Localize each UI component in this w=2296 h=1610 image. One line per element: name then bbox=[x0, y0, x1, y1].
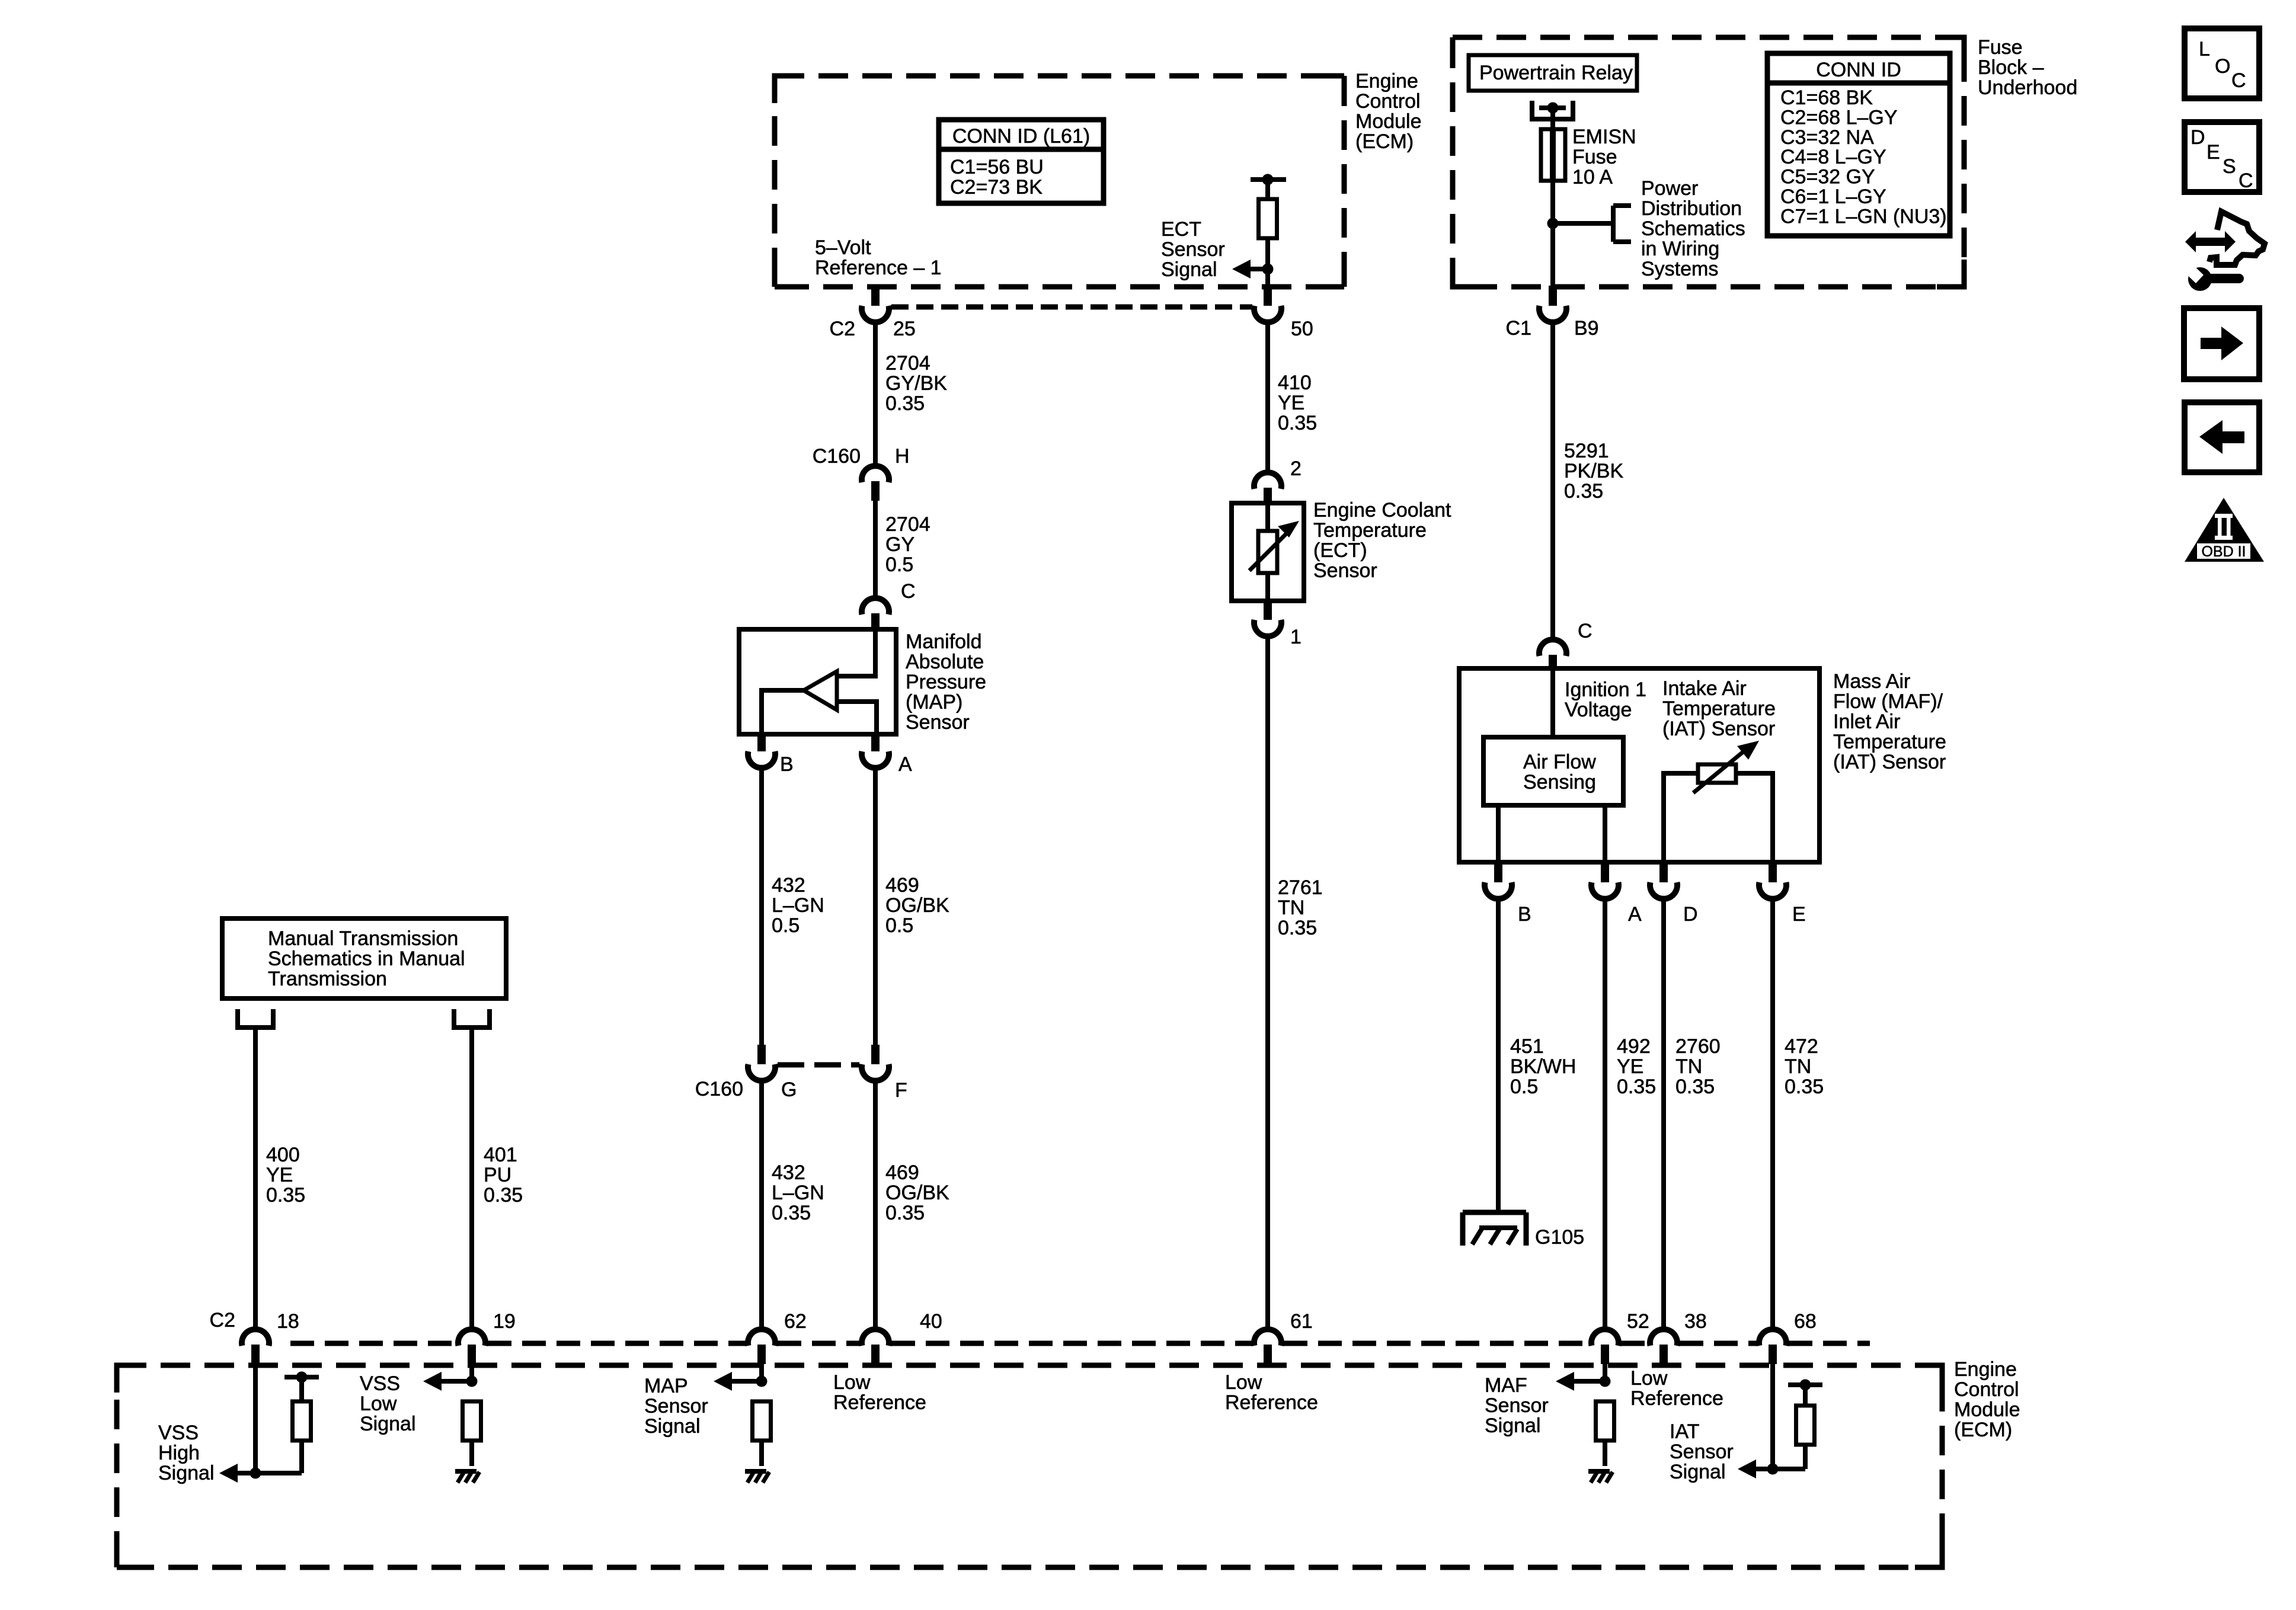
svg-text:YE: YE bbox=[266, 1164, 293, 1186]
svg-text:Block –: Block – bbox=[1978, 56, 2044, 79]
wire: air flow sensing signal output bbox=[1603, 805, 1607, 862]
icon: vehicle outline bbox=[2209, 212, 2265, 265]
label: Power Distribution Schematics in Wiring Systems bbox=[1641, 177, 1745, 280]
wire: pin 68 to junction bbox=[1770, 1364, 1775, 1469]
wire: IAT sensor signal arrow bbox=[1738, 1459, 1773, 1478]
label: Fuse Block - Underhood bbox=[1978, 36, 2077, 99]
connector: C160 pin F (pin and cup) bbox=[862, 1045, 889, 1081]
svg-text:High: High bbox=[158, 1442, 200, 1464]
label: Intake Air Temperature (IAT) Sensor bbox=[1662, 677, 1776, 740]
connector: ECM terminal 52 (dome and pin) bbox=[1591, 1329, 1619, 1364]
icon text: DESC letters bbox=[2191, 126, 2253, 192]
svg-text:TN: TN bbox=[1675, 1055, 1702, 1078]
svg-text:OG/BK: OG/BK bbox=[885, 1182, 949, 1204]
value label: 2761 TN 0.35 bbox=[1278, 876, 1323, 939]
icon: OBD II triangle bbox=[2185, 498, 2264, 562]
net label: 5-Volt Reference - 1 bbox=[815, 236, 942, 279]
svg-text:G105: G105 bbox=[1535, 1226, 1584, 1249]
label: pin G bbox=[781, 1078, 797, 1101]
connector: MAP terminal B cup bbox=[748, 751, 775, 768]
svg-text:2760: 2760 bbox=[1675, 1035, 1721, 1058]
svg-text:Signal: Signal bbox=[158, 1462, 215, 1484]
svg-text:TN: TN bbox=[1785, 1055, 1811, 1078]
svg-text:Sensor: Sensor bbox=[1313, 559, 1377, 582]
svg-text:BK/WH: BK/WH bbox=[1510, 1055, 1576, 1078]
svg-text:40: 40 bbox=[920, 1310, 942, 1333]
node: power distribution junction bbox=[1547, 218, 1559, 229]
label: VSS High Signal bbox=[158, 1422, 215, 1484]
label: pin D (MAF) bbox=[1683, 903, 1698, 926]
label: pin 1 (ECT) bbox=[1290, 626, 1302, 648]
node: IAT supply T-bar bbox=[1788, 1379, 1822, 1391]
arrow: ECT variable marker bbox=[1249, 521, 1299, 571]
label: connector C2 bbox=[830, 318, 855, 340]
svg-text:YE: YE bbox=[1617, 1055, 1643, 1078]
label: MAP Sensor Signal bbox=[644, 1375, 708, 1438]
svg-text:Mass Air: Mass Air bbox=[1833, 670, 1910, 693]
wire: junction to pull-up (pin 68) bbox=[1773, 1445, 1805, 1469]
svg-text:O: O bbox=[2215, 55, 2230, 78]
svg-text:Signal: Signal bbox=[1485, 1414, 1541, 1437]
wire: 472 TN 0.35 bbox=[1770, 897, 1775, 1328]
svg-text:in Wiring: in Wiring bbox=[1641, 238, 1719, 260]
svg-text:Voltage: Voltage bbox=[1565, 699, 1632, 721]
label: pin B (MAF) bbox=[1518, 903, 1531, 926]
pin stub: fuse block C1 pin B9 bbox=[1549, 286, 1557, 306]
svg-text:E: E bbox=[2207, 141, 2220, 164]
wire: pin 18 to junction bbox=[253, 1364, 258, 1473]
node: ECT signal junction bbox=[1262, 264, 1274, 275]
ground: MAF signal internal bbox=[1588, 1471, 1613, 1483]
wire: ECT internal top bbox=[1265, 505, 1270, 531]
resistor: VSS high pull-up bbox=[293, 1401, 311, 1441]
label: pin 50 bbox=[1291, 318, 1313, 340]
connector face line: ECM C2 (dashed) bbox=[891, 305, 1252, 310]
svg-text:469: 469 bbox=[885, 874, 919, 897]
svg-text:Low: Low bbox=[1225, 1371, 1262, 1394]
wire: supply to resistor bbox=[1265, 180, 1270, 199]
svg-text:0.5: 0.5 bbox=[772, 914, 800, 937]
wire: junction to fuse block edge bbox=[1550, 223, 1555, 287]
svg-text:0.35: 0.35 bbox=[1617, 1076, 1656, 1098]
connector: ECM terminal 18 (dome and pin) bbox=[242, 1329, 269, 1364]
icon text: LOC letters bbox=[2199, 38, 2246, 92]
svg-text:Underhood: Underhood bbox=[1978, 76, 2077, 99]
pin stub: MAF pin D bbox=[1659, 862, 1668, 882]
wire: ignition feed into air flow sensing bbox=[1550, 670, 1555, 738]
svg-text:Low: Low bbox=[360, 1393, 397, 1415]
svg-text:401: 401 bbox=[484, 1144, 517, 1166]
svg-text:C160: C160 bbox=[695, 1078, 743, 1100]
wire: MAF sensor signal arrow bbox=[1556, 1372, 1605, 1391]
connector: ECT pin 2 (dome and pin) bbox=[1254, 472, 1281, 504]
svg-text:EMISN: EMISN bbox=[1572, 126, 1636, 148]
svg-text:Low: Low bbox=[833, 1371, 871, 1394]
svg-text:Powertrain Relay: Powertrain Relay bbox=[1479, 62, 1633, 84]
svg-text:E: E bbox=[1792, 903, 1806, 926]
component box: ECT sensor bbox=[1232, 503, 1304, 601]
connector: ECT terminal 1 cup bbox=[1254, 620, 1281, 636]
value label: 2704 GY 0.5 bbox=[885, 513, 930, 576]
wire: MAP internal low side bbox=[762, 690, 805, 734]
label: Powertrain Relay bbox=[1479, 62, 1633, 84]
svg-text:C2: C2 bbox=[210, 1309, 235, 1331]
relay contact: powertrain relay output bbox=[1532, 101, 1573, 119]
label: Manifold Absolute Pressure (MAP) Sensor bbox=[906, 630, 986, 734]
label: pin A (MAF) bbox=[1628, 903, 1642, 926]
label: Manual Transmission Schematics in Manual Transmission bbox=[268, 927, 465, 990]
svg-text:C1: C1 bbox=[1506, 317, 1531, 340]
svg-text:L–GN: L–GN bbox=[772, 1182, 824, 1204]
icon: right arrow bbox=[2201, 327, 2243, 360]
connector: MAF terminal E cup bbox=[1759, 882, 1786, 899]
icon box: LOC bbox=[2185, 28, 2259, 98]
svg-text:TN: TN bbox=[1278, 897, 1304, 919]
connector: ECM terminal 40 (dome and pin) bbox=[862, 1329, 889, 1364]
wire: 2761 TN 0.35 bbox=[1265, 635, 1270, 1328]
svg-text:IAT: IAT bbox=[1670, 1420, 1699, 1443]
svg-text:0.35: 0.35 bbox=[1675, 1076, 1715, 1098]
svg-text:YE: YE bbox=[1278, 392, 1304, 414]
ground: VSS low internal bbox=[455, 1471, 479, 1483]
wire: 432 L-GN 0.5 bbox=[759, 766, 764, 1045]
svg-text:Transmission: Transmission bbox=[268, 968, 387, 990]
resistor: ECT thermistor bbox=[1258, 531, 1277, 573]
label: pin A (MAP) bbox=[898, 753, 912, 776]
value label: 2760 TN 0.35 bbox=[1675, 1035, 1721, 1098]
connector: C160 pin G (pin and cup) bbox=[748, 1045, 775, 1081]
svg-text:Engine Coolant: Engine Coolant bbox=[1313, 499, 1451, 521]
svg-text:Sensor: Sensor bbox=[1670, 1441, 1734, 1463]
off-page bracket: power distribution bbox=[1613, 206, 1631, 242]
label: pin B (MAP) bbox=[780, 753, 794, 776]
label: connector C160 (G row) bbox=[695, 1078, 743, 1100]
connector: MAF pin C (dome and pin) bbox=[1539, 639, 1566, 670]
wire: pin 19 to junction bbox=[469, 1364, 474, 1381]
label: pin C (MAP) bbox=[901, 580, 916, 603]
svg-text:19: 19 bbox=[493, 1310, 516, 1333]
net label: Low Reference (pin 40) bbox=[833, 1371, 926, 1414]
svg-text:2704: 2704 bbox=[885, 352, 930, 375]
svg-text:1: 1 bbox=[1290, 626, 1302, 648]
svg-text:ECT: ECT bbox=[1161, 218, 1201, 241]
svg-text:0.35: 0.35 bbox=[1785, 1076, 1824, 1098]
svg-text:Temperature: Temperature bbox=[1833, 731, 1946, 753]
svg-text:Low: Low bbox=[1630, 1367, 1668, 1390]
label: Engine Control Module (ECM) top-right bbox=[1355, 70, 1422, 153]
svg-text:VSS: VSS bbox=[360, 1372, 400, 1395]
svg-text:(ECM): (ECM) bbox=[1954, 1419, 2012, 1441]
svg-text:0.35: 0.35 bbox=[266, 1184, 305, 1206]
wire: 410 YE 0.35 bbox=[1265, 321, 1270, 471]
svg-text:432: 432 bbox=[772, 1161, 805, 1184]
label: pin 68 bbox=[1794, 1310, 1817, 1333]
connector face line: C160 G-F (dashed) bbox=[778, 1062, 859, 1068]
svg-text:Systems: Systems bbox=[1641, 258, 1718, 280]
svg-text:0.5: 0.5 bbox=[885, 553, 913, 576]
svg-text:GY/BK: GY/BK bbox=[885, 372, 947, 395]
wire: MAP sensor signal arrow bbox=[714, 1372, 762, 1391]
wire: pull-up to supply bar bbox=[299, 1377, 304, 1401]
svg-text:Manual Transmission: Manual Transmission bbox=[268, 927, 458, 950]
svg-text:Power: Power bbox=[1641, 177, 1698, 200]
label: Mass Air Flow (MAF)/Inlet Air Temperature (IAT) Sensor bbox=[1833, 670, 1946, 773]
svg-text:C2=68 L–GY: C2=68 L–GY bbox=[1780, 106, 1898, 129]
wire: air flow sensing low output bbox=[1496, 805, 1501, 862]
svg-text:Sensing: Sensing bbox=[1523, 771, 1596, 793]
svg-text:410: 410 bbox=[1278, 372, 1312, 394]
svg-text:Absolute: Absolute bbox=[906, 651, 984, 673]
svg-text:2: 2 bbox=[1290, 457, 1302, 480]
net label: Ignition 1 Voltage bbox=[1565, 678, 1646, 721]
svg-text:D: D bbox=[2191, 126, 2205, 149]
fuse: EMISN 10 A bbox=[1541, 129, 1565, 181]
label: pin 52 bbox=[1627, 1310, 1649, 1333]
label: VSS Low Signal bbox=[360, 1372, 416, 1435]
connector: ECM terminal 62 (dome and pin) bbox=[748, 1329, 775, 1364]
label: CONN ID (L61) header bbox=[952, 125, 1090, 148]
wire: resistor to ground (pin 19) bbox=[469, 1441, 474, 1466]
svg-text:25: 25 bbox=[893, 318, 916, 340]
wire: 451 BK/WH 0.5 bbox=[1496, 897, 1501, 1212]
svg-text:(ECM): (ECM) bbox=[1355, 130, 1414, 153]
svg-text:0.35: 0.35 bbox=[484, 1184, 523, 1206]
svg-text:492: 492 bbox=[1617, 1035, 1651, 1058]
svg-text:C3=32 NA: C3=32 NA bbox=[1780, 126, 1874, 149]
connector: MAF terminal A cup bbox=[1591, 882, 1619, 899]
svg-text:469: 469 bbox=[885, 1161, 919, 1184]
wire: 400 YE 0.35 bbox=[253, 1028, 258, 1328]
connector: ECM terminal 68 (dome and pin) bbox=[1759, 1329, 1786, 1364]
net label: Low Reference (pin 38) bbox=[1630, 1367, 1723, 1410]
icon box: DESC bbox=[2185, 122, 2259, 192]
svg-text:C: C bbox=[1578, 620, 1593, 642]
icon: left arrow bbox=[2199, 420, 2244, 454]
svg-text:Fuse: Fuse bbox=[1572, 146, 1617, 168]
svg-text:Reference: Reference bbox=[1225, 1391, 1318, 1414]
svg-text:CONN ID (L61): CONN ID (L61) bbox=[952, 125, 1090, 148]
svg-text:C: C bbox=[2231, 69, 2246, 92]
svg-text:L–GN: L–GN bbox=[772, 894, 824, 917]
connector: MAF terminal D cup bbox=[1650, 882, 1677, 899]
svg-text:G: G bbox=[781, 1078, 797, 1101]
wire: ECT sensor signal arrow bbox=[1232, 260, 1268, 279]
wire: 2760 TN 0.35 bbox=[1661, 897, 1666, 1328]
pin stub: MAF pin E bbox=[1769, 862, 1777, 882]
svg-text:C5=32 GY: C5=32 GY bbox=[1780, 166, 1875, 188]
svg-text:Control: Control bbox=[1954, 1378, 2019, 1401]
svg-text:2704: 2704 bbox=[885, 513, 930, 536]
op-amp: MAP sensing element triangle bbox=[804, 671, 837, 710]
svg-text:Signal: Signal bbox=[1670, 1461, 1726, 1483]
icon box: arrow right bbox=[2184, 308, 2259, 379]
svg-text:C: C bbox=[901, 580, 916, 603]
wire: 5291 PK/BK 0.35 bbox=[1550, 321, 1555, 638]
svg-text:Temperature: Temperature bbox=[1662, 697, 1776, 720]
svg-text:Schematics in Manual: Schematics in Manual bbox=[268, 948, 465, 970]
connector: ECM terminal 19 (dome and pin) bbox=[458, 1329, 485, 1364]
label: pin 18 bbox=[277, 1310, 299, 1333]
svg-text:0.35: 0.35 bbox=[1278, 917, 1317, 939]
svg-text:D: D bbox=[1683, 903, 1698, 926]
value label: 400 YE 0.35 bbox=[266, 1144, 305, 1206]
svg-text:0.35: 0.35 bbox=[1278, 412, 1317, 434]
ground: MAP signal internal bbox=[745, 1471, 769, 1483]
svg-text:Module: Module bbox=[1355, 110, 1422, 133]
connector: C2 terminal 25 cup bbox=[862, 306, 889, 322]
node: VSS high junction bbox=[250, 1468, 261, 1479]
wire: fuse to junction bbox=[1550, 181, 1555, 223]
svg-text:Intake Air: Intake Air bbox=[1662, 677, 1747, 700]
lead bracket: VSS high output bbox=[238, 1009, 273, 1028]
svg-text:10 A: 10 A bbox=[1572, 166, 1613, 188]
label: connector C2 (bottom) bbox=[210, 1309, 235, 1331]
label: pin C (MAF) bbox=[1578, 620, 1593, 642]
connector: C160 pin H (dome and pin) bbox=[862, 466, 889, 501]
value label: 451 BK/WH 0.5 bbox=[1510, 1035, 1576, 1098]
svg-text:451: 451 bbox=[1510, 1035, 1544, 1058]
svg-text:Inlet Air: Inlet Air bbox=[1833, 710, 1900, 733]
svg-text:0.35: 0.35 bbox=[1564, 480, 1603, 502]
wire: pin 62 to junction bbox=[759, 1364, 764, 1381]
value label: 401 PU 0.35 bbox=[484, 1144, 523, 1206]
wire: 469 OG/BK 0.5 bbox=[873, 766, 878, 1045]
module box: Engine Control Module (ECM) bottom (dashed) bbox=[117, 1365, 1942, 1567]
svg-text:C2=73 BK: C2=73 BK bbox=[950, 176, 1043, 199]
value label: 469 OG/BK 0.35 bbox=[885, 1161, 949, 1224]
svg-text:Signal: Signal bbox=[644, 1415, 701, 1438]
icon: wrench bbox=[2182, 261, 2239, 291]
wire: resistor to ground (pin 52) bbox=[1603, 1441, 1607, 1466]
svg-text:Module: Module bbox=[1954, 1398, 2020, 1421]
label: connector C1 bbox=[1506, 317, 1531, 340]
svg-text:F: F bbox=[895, 1079, 907, 1102]
svg-text:472: 472 bbox=[1785, 1035, 1818, 1058]
svg-text:5291: 5291 bbox=[1564, 440, 1609, 462]
svg-text:Reference: Reference bbox=[833, 1391, 926, 1414]
wire: resistor to junction bbox=[1265, 238, 1270, 269]
svg-text:MAP: MAP bbox=[644, 1375, 688, 1397]
wire: 2704 GY/BK 0.35 bbox=[873, 321, 878, 465]
node: IAT signal junction bbox=[1767, 1464, 1779, 1475]
wire: 401 PU 0.35 bbox=[469, 1028, 474, 1328]
svg-text:C1=68 BK: C1=68 BK bbox=[1780, 87, 1873, 109]
svg-text:PU: PU bbox=[484, 1164, 511, 1186]
svg-text:Temperature: Temperature bbox=[1313, 519, 1427, 542]
svg-text:Air Flow: Air Flow bbox=[1523, 751, 1596, 773]
svg-text:H: H bbox=[895, 445, 910, 468]
wire: ECT internal bottom bbox=[1265, 573, 1270, 601]
label: CONN ID header bbox=[1816, 59, 1901, 81]
label: CONN ID rows bbox=[1780, 87, 1947, 228]
svg-text:C1=56 BU: C1=56 BU bbox=[950, 156, 1044, 178]
wire: IAT element right lead bbox=[1736, 773, 1773, 862]
label: pin B9 bbox=[1574, 317, 1599, 340]
svg-text:C4=8 L–GY: C4=8 L–GY bbox=[1780, 146, 1886, 168]
connector: MAP pin C (dome and pin) bbox=[862, 598, 889, 630]
svg-text:(ECT): (ECT) bbox=[1313, 539, 1367, 562]
svg-text:Sensor: Sensor bbox=[1485, 1394, 1549, 1417]
svg-text:0.35: 0.35 bbox=[885, 392, 925, 415]
value label: 2704 GY/BK 0.35 bbox=[885, 352, 947, 415]
pin stub: ECT pin 1 bbox=[1264, 601, 1272, 620]
component box: Powertrain Relay bbox=[1469, 55, 1637, 91]
wire: IAT element left lead bbox=[1664, 773, 1698, 862]
svg-text:C: C bbox=[2239, 169, 2253, 192]
resistor: IAT pull-up bbox=[1796, 1406, 1815, 1445]
wire: MAP internal output bottom bbox=[836, 702, 877, 734]
module box: Engine Control Module (ECM) top (dashed) bbox=[775, 76, 1344, 287]
label: EMISN Fuse 10 A bbox=[1572, 126, 1636, 188]
wire: junction to ECM edge bbox=[1265, 269, 1270, 287]
resistor: IAT thermistor bbox=[1698, 764, 1736, 783]
svg-text:0.35: 0.35 bbox=[772, 1202, 811, 1224]
svg-text:Control: Control bbox=[1355, 90, 1421, 113]
svg-text:Sensor: Sensor bbox=[644, 1395, 708, 1417]
label: CONN ID (L61) rows bbox=[950, 156, 1044, 199]
label: pin 61 bbox=[1290, 1310, 1313, 1333]
value label: 5291 PK/BK 0.35 bbox=[1564, 440, 1623, 502]
module box: Fuse Block - Underhood (dashed) bbox=[1453, 37, 1964, 287]
connector: ECM terminal 61 (dome and pin) bbox=[1254, 1329, 1281, 1364]
resistor: VSS low load bbox=[463, 1401, 481, 1441]
wire: junction to pull-up bbox=[255, 1441, 302, 1473]
value label: 469 OG/BK 0.5 bbox=[885, 874, 949, 937]
label: pin F bbox=[895, 1079, 907, 1102]
lead bracket: VSS low output bbox=[454, 1009, 490, 1028]
pin stub: MAP pin B bbox=[757, 734, 766, 751]
table box: CONN ID (L61) bbox=[939, 120, 1104, 203]
svg-text:Pressure: Pressure bbox=[906, 671, 986, 693]
svg-text:Fuse: Fuse bbox=[1978, 36, 2023, 59]
pin stub: MAF pin B bbox=[1494, 862, 1502, 882]
wire: pin 52 to junction bbox=[1603, 1364, 1607, 1381]
pin stub: MAF pin A bbox=[1601, 862, 1609, 882]
component box: MAF/IAT sensor bbox=[1459, 668, 1819, 862]
label: pin 19 bbox=[493, 1310, 516, 1333]
svg-text:B: B bbox=[780, 753, 794, 776]
svg-text:C6=1 L–GY: C6=1 L–GY bbox=[1780, 185, 1886, 208]
label: Engine Coolant Temperature (ECT) Sensor bbox=[1313, 499, 1451, 582]
svg-text:A: A bbox=[1628, 903, 1642, 926]
node: MAP signal junction bbox=[756, 1376, 768, 1387]
ground: G105 bbox=[1463, 1212, 1526, 1246]
svg-text:Engine: Engine bbox=[1355, 70, 1418, 92]
connector: MAF terminal B cup bbox=[1485, 882, 1512, 899]
wire: branch to power distribution bbox=[1553, 221, 1613, 226]
node: MAF signal junction bbox=[1600, 1376, 1611, 1387]
svg-text:61: 61 bbox=[1290, 1310, 1313, 1333]
value label: 492 YE 0.35 bbox=[1617, 1035, 1656, 1098]
wire: 432 L-GN 0.35 bbox=[759, 1079, 764, 1328]
label: pin 38 bbox=[1684, 1310, 1707, 1333]
connector face line: ECM bottom (dashed) bbox=[290, 1341, 1870, 1346]
svg-text:C7=1 L–GN (NU3): C7=1 L–GN (NU3) bbox=[1780, 205, 1947, 228]
svg-text:400: 400 bbox=[266, 1144, 300, 1166]
svg-text:0.5: 0.5 bbox=[885, 914, 913, 937]
resistor: MAF signal load bbox=[1596, 1401, 1614, 1441]
svg-text:(MAP): (MAP) bbox=[906, 691, 962, 713]
wire: pull-up to supply bar (pin 68) bbox=[1803, 1385, 1808, 1406]
svg-text:Signal: Signal bbox=[1161, 258, 1217, 281]
svg-text:50: 50 bbox=[1291, 318, 1313, 340]
connector: ECM terminal 38 (dome and pin) bbox=[1650, 1329, 1677, 1364]
component box: Air Flow Sensing bbox=[1483, 737, 1623, 805]
label: pin 25 bbox=[893, 318, 916, 340]
wire: resistor to ground (pin 62) bbox=[759, 1441, 764, 1466]
wire: relay to fuse bbox=[1550, 108, 1555, 129]
svg-text:Flow (MAF)/: Flow (MAF)/ bbox=[1833, 690, 1943, 713]
